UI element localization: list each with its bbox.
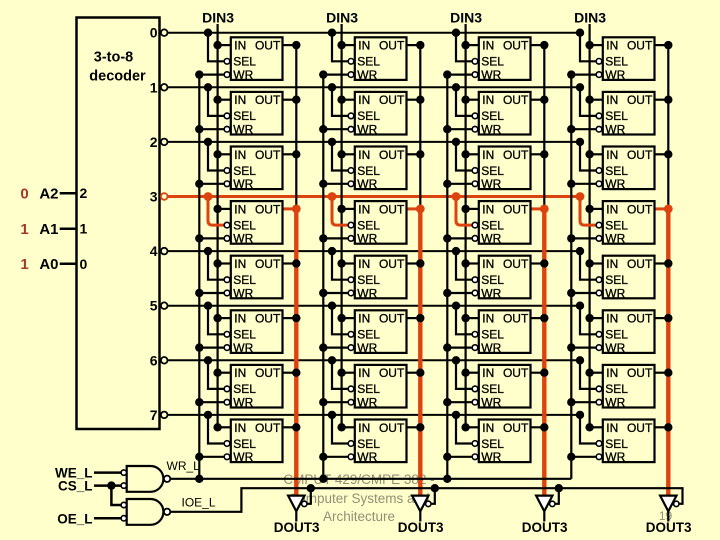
wire OE_L — [94, 517, 121, 520]
svg-text:SEL: SEL — [357, 437, 380, 451]
memory cell row 2 col 0 — [195, 138, 300, 191]
svg-text:OUT: OUT — [627, 312, 653, 326]
memory cell row 4 col 2 — [443, 247, 548, 300]
svg-text:SEL: SEL — [233, 109, 256, 123]
wire net WR column 1 vertical — [322, 75, 324, 479]
svg-text:IN: IN — [606, 421, 618, 435]
decoder label — [89, 50, 146, 85]
svg-text:OUT: OUT — [503, 257, 529, 271]
svg-text:IN: IN — [358, 366, 370, 380]
svg-text:WR: WR — [233, 450, 253, 464]
wire row 1 select line — [168, 86, 581, 88]
svg-text:OUT: OUT — [255, 202, 281, 216]
memory cell row 2 col 3 — [567, 138, 672, 191]
svg-text:OUT: OUT — [379, 257, 405, 271]
memory cell row 2 col 1 — [319, 138, 424, 191]
svg-text:WR: WR — [357, 286, 377, 300]
svg-text:Architecture: Architecture — [323, 509, 395, 524]
svg-text:3: 3 — [150, 189, 158, 205]
svg-text:SEL: SEL — [481, 55, 504, 69]
svg-text:IN: IN — [234, 39, 246, 53]
svg-text:SEL: SEL — [605, 55, 628, 69]
svg-text:IN: IN — [482, 148, 494, 162]
svg-text:SEL: SEL — [481, 218, 504, 232]
svg-text:0: 0 — [80, 256, 88, 272]
svg-text:OUT: OUT — [379, 421, 405, 435]
wire A0 to decoder — [60, 263, 77, 266]
svg-text:WR: WR — [357, 341, 377, 355]
memory cell row 0 col 2 — [443, 29, 548, 82]
svg-text:SEL: SEL — [605, 218, 628, 232]
svg-text:WR: WR — [605, 68, 625, 82]
memory cell row 6 col 1 — [319, 356, 424, 409]
svg-text:WR: WR — [357, 450, 377, 464]
svg-text:SEL: SEL — [357, 273, 380, 287]
svg-text:WR: WR — [481, 286, 501, 300]
svg-text:OUT: OUT — [379, 148, 405, 162]
decoder output 5 pin bubble — [161, 302, 168, 309]
svg-text:DIN3: DIN3 — [326, 9, 358, 25]
svg-text:SEL: SEL — [233, 55, 256, 69]
svg-text:3-to-8: 3-to-8 — [94, 50, 133, 66]
memory cell row 7 col 3 — [567, 411, 672, 464]
svg-text:0: 0 — [20, 186, 28, 203]
memory cell row 4 col 0 — [195, 247, 300, 300]
svg-text:OUT: OUT — [379, 312, 405, 326]
svg-text:IN: IN — [358, 257, 370, 271]
wire row 5 select line — [168, 305, 581, 307]
svg-text:IN: IN — [234, 202, 246, 216]
svg-text:WR: WR — [357, 232, 377, 246]
memory cell row 3 col 2 — [443, 192, 549, 246]
svg-text:OUT: OUT — [379, 366, 405, 380]
memory cell row 4 col 3 — [567, 247, 672, 300]
3-to-8 decoder U1 box — [77, 18, 160, 430]
svg-text:WR: WR — [233, 232, 253, 246]
svg-text:OUT: OUT — [255, 312, 281, 326]
tri-state output buffer col 3 — [660, 496, 679, 522]
svg-text:IN: IN — [606, 148, 618, 162]
svg-text:IN: IN — [358, 93, 370, 107]
svg-text:WR: WR — [481, 450, 501, 464]
svg-text:DIN3: DIN3 — [202, 9, 234, 25]
wire row 6 select line — [168, 359, 581, 361]
svg-text:IN: IN — [234, 148, 246, 162]
svg-text:OUT: OUT — [627, 202, 653, 216]
svg-text:SEL: SEL — [357, 164, 380, 178]
svg-text:IN: IN — [358, 39, 370, 53]
memory cell row 5 col 1 — [319, 302, 424, 355]
svg-text:SEL: SEL — [233, 218, 256, 232]
svg-text:WR: WR — [357, 68, 377, 82]
svg-text:CS_L: CS_L — [58, 478, 93, 493]
svg-text:WR: WR — [605, 177, 625, 191]
wire net WR_L horizontal — [170, 475, 571, 483]
svg-text:WR: WR — [481, 232, 501, 246]
svg-text:OUT: OUT — [627, 39, 653, 53]
svg-text:0: 0 — [150, 25, 158, 41]
wire net OUT column 2 vertical upper — [543, 45, 545, 209]
memory cell row 7 col 1 — [319, 411, 424, 464]
svg-text:SEL: SEL — [605, 273, 628, 287]
svg-text:SEL: SEL — [233, 164, 256, 178]
memory cell row 3 col 0 — [195, 192, 301, 246]
svg-text:IN: IN — [606, 257, 618, 271]
wire net DIN3 column 3 vertical — [588, 24, 590, 427]
svg-text:SEL: SEL — [481, 109, 504, 123]
decoder output 2 pin bubble — [161, 139, 168, 146]
svg-text:SEL: SEL — [357, 55, 380, 69]
wire row 7 select line — [168, 414, 581, 416]
svg-text:OUT: OUT — [627, 257, 653, 271]
memory cell row 7 col 2 — [443, 411, 548, 464]
svg-text:WR: WR — [233, 68, 253, 82]
svg-text:IN: IN — [606, 312, 618, 326]
svg-text:SEL: SEL — [481, 437, 504, 451]
memory cell row 6 col 0 — [195, 356, 300, 409]
wire A1 to decoder — [60, 227, 77, 230]
svg-text:SEL: SEL — [605, 164, 628, 178]
svg-text:DOUT3: DOUT3 — [274, 520, 320, 535]
svg-text:DOUT3: DOUT3 — [398, 520, 444, 535]
memory cell row 4 col 1 — [319, 247, 424, 300]
svg-text:WR_L: WR_L — [167, 459, 201, 473]
svg-text:IN: IN — [358, 421, 370, 435]
svg-text:WR: WR — [605, 123, 625, 137]
svg-text:1: 1 — [20, 221, 28, 238]
svg-text:OUT: OUT — [379, 202, 405, 216]
svg-text:WR: WR — [357, 396, 377, 410]
svg-text:DOUT3: DOUT3 — [646, 520, 692, 535]
wire net IOE_L — [170, 488, 682, 512]
svg-text:IN: IN — [482, 93, 494, 107]
svg-text:OE_L: OE_L — [57, 511, 92, 526]
svg-text:OUT: OUT — [627, 366, 653, 380]
wire row 2 select line — [168, 141, 581, 143]
memory cell row 5 col 2 — [443, 302, 548, 355]
wire net OUT column 3 vertical highlighted — [666, 209, 670, 497]
svg-text:IN: IN — [234, 366, 246, 380]
tri-state output buffer col 2 — [536, 484, 563, 522]
svg-text:WR: WR — [605, 232, 625, 246]
svg-text:WR: WR — [481, 341, 501, 355]
svg-text:6: 6 — [150, 352, 158, 368]
svg-text:SEL: SEL — [233, 437, 256, 451]
svg-text:SEL: SEL — [233, 273, 256, 287]
svg-text:IN: IN — [482, 202, 494, 216]
svg-text:WR: WR — [233, 286, 253, 300]
NAND gate G1 (WE_L,CS_L -> WR_L) — [121, 466, 170, 492]
wire CS_L — [94, 481, 121, 505]
svg-text:WR: WR — [481, 68, 501, 82]
wire net WR column 3 vertical — [570, 75, 572, 479]
svg-text:IN: IN — [606, 202, 618, 216]
svg-text:IN: IN — [606, 93, 618, 107]
wire WE_L — [94, 471, 121, 474]
svg-text:IN: IN — [606, 366, 618, 380]
svg-text:SEL: SEL — [605, 437, 628, 451]
memory cell row 1 col 1 — [319, 83, 424, 136]
NAND gate G2 (CS_L,OE_L -> IOE_L) — [121, 499, 170, 525]
svg-text:DIN3: DIN3 — [450, 9, 482, 25]
svg-text:WR: WR — [233, 123, 253, 137]
svg-text:7: 7 — [150, 407, 158, 423]
svg-text:WR: WR — [481, 396, 501, 410]
svg-text:WR: WR — [357, 123, 377, 137]
memory cell row 0 col 1 — [319, 29, 424, 82]
svg-text:IN: IN — [482, 257, 494, 271]
svg-text:SEL: SEL — [481, 328, 504, 342]
wire net OUT column 0 vertical highlighted — [294, 209, 298, 497]
memory cell row 3 col 3 — [567, 192, 673, 246]
svg-text:OUT: OUT — [255, 366, 281, 380]
wire net DIN3 column 2 vertical — [465, 24, 467, 427]
svg-text:1: 1 — [150, 79, 158, 95]
decoder output 3 pin bubble — [161, 193, 168, 200]
svg-text:DOUT3: DOUT3 — [522, 520, 568, 535]
svg-text:IN: IN — [358, 312, 370, 326]
memory cell row 5 col 0 — [195, 302, 300, 355]
svg-text:OUT: OUT — [503, 39, 529, 53]
decoder output 4 pin bubble — [161, 248, 168, 255]
svg-text:5: 5 — [150, 298, 158, 314]
svg-text:2: 2 — [80, 185, 88, 201]
svg-text:SEL: SEL — [233, 382, 256, 396]
svg-text:DIN3: DIN3 — [574, 9, 606, 25]
memory cell row 1 col 3 — [567, 83, 672, 136]
wire net DIN3 column 0 vertical — [217, 24, 219, 427]
svg-text:IN: IN — [482, 39, 494, 53]
svg-text:WR: WR — [233, 177, 253, 191]
slide title text — [283, 472, 434, 524]
memory cell row 7 col 0 — [195, 411, 300, 464]
memory cell row 0 col 0 — [195, 29, 300, 82]
svg-text:SEL: SEL — [357, 218, 380, 232]
svg-text:IN: IN — [358, 148, 370, 162]
decoder output 0 pin bubble — [161, 29, 168, 36]
svg-text:A0: A0 — [39, 256, 58, 273]
svg-text:1: 1 — [20, 256, 28, 273]
svg-text:OUT: OUT — [503, 148, 529, 162]
svg-text:WR: WR — [357, 177, 377, 191]
memory cell row 2 col 2 — [443, 138, 548, 191]
svg-text:IN: IN — [358, 202, 370, 216]
wire net OUT column 0 vertical upper — [295, 45, 297, 209]
svg-text:OUT: OUT — [255, 93, 281, 107]
wire row 3 select line — [168, 195, 581, 198]
svg-text:2: 2 — [150, 134, 158, 150]
svg-text:OUT: OUT — [503, 202, 529, 216]
wire row 0 select line — [168, 32, 581, 34]
wire net WR column 0 vertical — [198, 75, 200, 479]
memory cell row 5 col 3 — [567, 302, 672, 355]
svg-text:OUT: OUT — [255, 39, 281, 53]
svg-text:OUT: OUT — [627, 421, 653, 435]
svg-text:OUT: OUT — [503, 312, 529, 326]
memory cell row 1 col 0 — [195, 83, 300, 136]
svg-text:1: 1 — [80, 221, 88, 237]
decoder output 6 pin bubble — [161, 357, 168, 364]
svg-text:SEL: SEL — [605, 328, 628, 342]
svg-text:SEL: SEL — [357, 109, 380, 123]
tri-state output buffer col 1 — [412, 484, 439, 522]
svg-text:WR: WR — [605, 286, 625, 300]
svg-text:SEL: SEL — [357, 382, 380, 396]
svg-text:OUT: OUT — [503, 421, 529, 435]
svg-text:SEL: SEL — [357, 328, 380, 342]
svg-text:SEL: SEL — [481, 164, 504, 178]
svg-text:OUT: OUT — [379, 93, 405, 107]
svg-text:IN: IN — [482, 366, 494, 380]
svg-text:WR: WR — [605, 396, 625, 410]
svg-text:OUT: OUT — [255, 148, 281, 162]
memory cell row 6 col 3 — [567, 356, 672, 409]
svg-text:SEL: SEL — [233, 328, 256, 342]
svg-text:OUT: OUT — [627, 93, 653, 107]
wire net OUT column 3 vertical upper — [667, 45, 669, 209]
svg-text:WR: WR — [481, 123, 501, 137]
svg-text:OUT: OUT — [503, 366, 529, 380]
svg-text:A1: A1 — [39, 221, 58, 238]
wire net OUT column 1 vertical highlighted — [418, 209, 422, 497]
svg-text:SEL: SEL — [605, 109, 628, 123]
svg-text:SEL: SEL — [481, 382, 504, 396]
svg-text:OUT: OUT — [503, 93, 529, 107]
memory cell row 3 col 1 — [319, 192, 425, 246]
svg-text:IN: IN — [482, 312, 494, 326]
wire row 4 select line — [168, 250, 581, 252]
svg-text:WR: WR — [605, 450, 625, 464]
svg-text:OUT: OUT — [255, 257, 281, 271]
svg-text:IN: IN — [234, 257, 246, 271]
svg-text:IN: IN — [234, 312, 246, 326]
wire net OUT column 2 vertical highlighted — [542, 209, 546, 497]
svg-text:WR: WR — [233, 396, 253, 410]
svg-text:A2: A2 — [39, 186, 58, 203]
wire net OUT column 1 vertical upper — [419, 45, 421, 209]
svg-text:OUT: OUT — [627, 148, 653, 162]
svg-text:WR: WR — [233, 341, 253, 355]
memory cell row 1 col 2 — [443, 83, 548, 136]
svg-text:SEL: SEL — [605, 382, 628, 396]
decoder output 7 pin bubble — [161, 412, 168, 419]
wire A2 to decoder — [60, 192, 77, 195]
svg-text:OUT: OUT — [379, 39, 405, 53]
decoder output 1 pin bubble — [161, 84, 168, 91]
svg-text:WR: WR — [605, 341, 625, 355]
wire net DIN3 column 1 vertical — [341, 24, 343, 427]
memory cell row 0 col 3 — [567, 29, 672, 82]
svg-text:IN: IN — [482, 421, 494, 435]
svg-text:WR: WR — [481, 177, 501, 191]
svg-text:IN: IN — [234, 421, 246, 435]
svg-text:4: 4 — [150, 243, 158, 259]
svg-text:SEL: SEL — [481, 273, 504, 287]
wire net WR column 2 vertical — [446, 75, 448, 479]
svg-text:IN: IN — [606, 39, 618, 53]
memory cell row 6 col 2 — [443, 356, 548, 409]
tri-state output buffer col 0 — [288, 484, 315, 522]
svg-text:IOE_L: IOE_L — [182, 495, 216, 509]
svg-text:decoder: decoder — [89, 69, 146, 85]
svg-text:IN: IN — [234, 93, 246, 107]
svg-text:OUT: OUT — [255, 421, 281, 435]
